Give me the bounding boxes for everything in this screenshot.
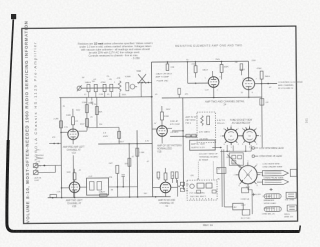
plus mark above capsule <box>270 188 273 191</box>
wire: V2 output right <box>255 82 277 84</box>
node J33 <box>220 147 222 149</box>
scanned book left edge line (bottom) + page bottom edge <box>7 140 300 232</box>
node J22 <box>182 130 184 132</box>
node J4 <box>267 83 269 85</box>
wire: V1B plate right <box>167 127 172 129</box>
wire: V3 grid <box>153 186 161 188</box>
capsule A3 <box>264 194 281 199</box>
wire: plate feed V2 <box>247 61 249 78</box>
wire: V1B cathode <box>161 136 163 143</box>
resistor R17 on rail <box>100 194 108 197</box>
node J25 <box>151 96 153 98</box>
socket SK3 large <box>235 162 260 187</box>
node J19 <box>155 196 157 198</box>
resistor R21 zigzag <box>201 116 204 126</box>
resistor R13 <box>136 148 139 156</box>
resistor R18c <box>171 172 174 183</box>
scan registration square top-left <box>11 14 16 19</box>
plug box <box>233 203 244 210</box>
resistor R6 zigzag <box>118 81 121 92</box>
wire: RA RB join <box>87 126 119 128</box>
resistor R23 on bus <box>166 62 169 71</box>
keyway wedge SK3 <box>241 180 243 183</box>
dashed box filter <box>187 180 217 200</box>
label RB rows <box>80 116 103 126</box>
tube V2B <box>69 182 80 198</box>
node J6 <box>248 96 250 98</box>
capacitor C9 on feed <box>260 99 264 106</box>
node J10 <box>128 143 130 145</box>
label SK3 pin digits <box>233 161 263 191</box>
resistor column RB <box>95 97 98 127</box>
resistor R16 on rail <box>50 195 57 198</box>
wire: left vertical bus <box>60 98 63 198</box>
resistor R12 <box>128 158 131 166</box>
legend row 1 <box>252 146 284 150</box>
node J28 <box>182 186 183 187</box>
box right of V2B <box>86 178 108 195</box>
label right col rows <box>241 198 251 220</box>
wire: under-socket bus <box>220 150 251 152</box>
page border frame <box>22 26 298 223</box>
wire: V1A cathode <box>72 140 74 145</box>
resistor R18b <box>157 172 160 178</box>
plus mark <box>252 193 255 196</box>
label chain extra <box>82 76 116 84</box>
resistor R2 <box>87 84 90 91</box>
component cluster lower mid <box>116 165 125 197</box>
wire: V2 cathode down <box>248 90 250 97</box>
wire: stub at y131 <box>172 130 183 132</box>
node J2 <box>221 61 223 63</box>
wire: V2B grid left stub <box>62 187 70 189</box>
label V1B caption <box>157 144 182 153</box>
tube V1 <box>208 71 219 87</box>
wire: V1A grid <box>61 131 68 133</box>
node J31 <box>57 143 59 145</box>
resistor R19 <box>186 134 190 137</box>
box inside V2B out box <box>89 182 101 191</box>
resistor R11 <box>220 61 223 79</box>
wire: SK3 to arrow2 <box>257 181 262 183</box>
box BA1 <box>290 169 296 176</box>
tube V3 <box>160 182 171 197</box>
resistor R25 left of V2 <box>240 64 243 76</box>
node J14 <box>52 197 54 199</box>
wire: small horizontal y186.5 <box>109 186 138 188</box>
node J27 <box>178 186 179 187</box>
wire: left feed to cable <box>212 146 221 148</box>
resistor R26 in box <box>212 190 216 193</box>
small box left mid <box>217 167 226 173</box>
node J3 <box>261 83 263 85</box>
resistor R18d <box>175 172 178 183</box>
label box corner texts <box>156 72 173 82</box>
scanned book left edge line (top) <box>8 20 13 141</box>
socket SK2 <box>240 126 259 145</box>
resistor R24 left of x183 <box>178 88 181 98</box>
capacitor C2 small <box>91 102 94 103</box>
wire: upper cathode rail <box>162 96 262 99</box>
wire: grid feed vertical <box>186 62 188 83</box>
node J8 <box>148 82 150 84</box>
node J9 <box>60 132 62 134</box>
label sockets caption <box>230 120 253 125</box>
wire: join down <box>118 127 120 143</box>
node J16 <box>74 197 76 199</box>
label V3 caption <box>158 199 175 208</box>
potentiometer R1 <box>77 85 82 91</box>
node J18 <box>137 196 139 198</box>
node J7 <box>141 82 143 84</box>
capacitor C7 <box>197 183 204 188</box>
resistor R15 top V2B <box>73 169 76 182</box>
label chain below <box>84 94 127 97</box>
shielded cable pair <box>222 149 225 207</box>
label V2B caption <box>66 199 83 208</box>
tube V1A <box>68 129 79 140</box>
label jack below <box>34 176 41 182</box>
capacitor C11 <box>238 155 242 159</box>
wire: B+ bus top <box>151 60 248 63</box>
wire: chain drop ticks <box>89 92 120 98</box>
node J1 <box>195 61 197 63</box>
node J1c <box>195 82 197 84</box>
capacitor C10 <box>232 155 236 159</box>
jack J1 input <box>33 163 61 167</box>
node J29 <box>61 187 63 189</box>
label texture: scattered value labels <box>35 59 280 212</box>
resistor R10 <box>194 62 197 78</box>
wire: V2B to box <box>80 186 87 188</box>
wire: V1A cathode to rail <box>72 155 74 197</box>
resistor column RA <box>85 97 88 130</box>
label mid rows <box>170 115 226 133</box>
wire: socket pin drops <box>227 145 251 152</box>
capsule A4 <box>264 207 281 212</box>
wire: V1B grid <box>152 128 157 130</box>
wire: mid horizontal <box>98 143 152 145</box>
capacitor C8 <box>206 183 212 188</box>
wire: cable to plug <box>224 206 232 208</box>
label output note <box>278 82 303 90</box>
sub-chassis box <box>229 153 243 166</box>
resistor R9 plate V1B <box>160 106 163 126</box>
node J21 <box>167 61 169 63</box>
node J5 <box>213 97 215 99</box>
resistor R22 <box>207 116 210 125</box>
jack J2 input <box>33 165 55 174</box>
label rows under box <box>199 153 219 161</box>
tube V2 <box>243 78 255 90</box>
fuse box F1 <box>242 210 250 216</box>
pilot lamp P1 <box>190 184 194 188</box>
label SK2 pin digits <box>238 125 261 148</box>
wire: chain to bus <box>137 81 151 83</box>
wire: chassis vertical bus <box>151 62 152 197</box>
wire: RB top tick <box>91 97 93 100</box>
node J13 <box>122 186 124 188</box>
resistor R28 <box>232 161 236 165</box>
node J24 <box>245 151 246 152</box>
resistor R27 in box <box>197 190 201 193</box>
resistor R3 <box>94 84 97 91</box>
node J30 <box>53 143 55 145</box>
resistor RC <box>118 131 121 138</box>
label jack block <box>36 155 44 163</box>
wire: dashed drops <box>198 162 213 181</box>
switch S1 cross <box>138 74 146 84</box>
wire: V1 cathode down <box>213 87 215 97</box>
resistor R20 <box>192 134 196 137</box>
wire: chain <box>81 87 118 89</box>
wire: vertical x137 <box>136 130 139 197</box>
resistor R5 <box>110 84 113 91</box>
box BA3 <box>286 192 296 198</box>
resistor R4 <box>103 84 106 91</box>
capacitor C1 cluster <box>126 83 137 91</box>
wire: top jack feed <box>49 142 61 144</box>
label V1A caption <box>63 146 86 155</box>
node J15 <box>61 197 63 199</box>
node J12 <box>117 186 119 188</box>
tube V1B <box>157 126 168 137</box>
scanned page bottom edge hook right <box>299 226 302 232</box>
node J23 <box>227 151 228 152</box>
socket SK1 <box>222 126 241 145</box>
wire: V1 grid <box>188 82 209 84</box>
wire: x177 vertical <box>176 180 178 197</box>
label SK1 pin digits <box>220 125 243 148</box>
wire: right vertical feed <box>261 84 264 148</box>
wire: branch y136.5 <box>170 135 197 137</box>
legend row 2 <box>252 155 283 159</box>
wire: SK3 to arrow1 <box>257 172 262 174</box>
small box right of plus <box>242 188 249 193</box>
wire: left long rail <box>59 96 151 99</box>
terminal box <box>190 140 216 150</box>
capacitor C5 <box>180 182 184 191</box>
node J17 <box>129 196 131 198</box>
dots row in filter box <box>190 198 212 199</box>
resistor R8 plate <box>71 109 74 129</box>
node J32 <box>43 165 45 167</box>
box BA4 <box>287 205 297 211</box>
wire: x183 vertical <box>182 98 185 190</box>
note text block <box>78 41 154 61</box>
node J20 <box>182 135 184 137</box>
arrow A2 <box>262 179 288 184</box>
resistor R14 <box>260 71 263 84</box>
wire: V1A plate right <box>78 130 87 132</box>
wire: V3 right <box>171 186 178 188</box>
node J11 <box>136 143 138 145</box>
dashed box tone network <box>197 112 216 143</box>
resistor R18 top V3 <box>164 168 167 182</box>
wire: ground rail bottom <box>48 197 171 198</box>
node J1b <box>187 61 189 63</box>
wire: vertical x129 <box>128 144 130 197</box>
arrow A1 <box>262 170 288 175</box>
wire: SK3 bottom chain <box>248 187 252 214</box>
wire: switch drop <box>140 83 142 97</box>
wire: diagonal to SK3 <box>227 154 240 168</box>
resistor R7 <box>60 121 63 128</box>
